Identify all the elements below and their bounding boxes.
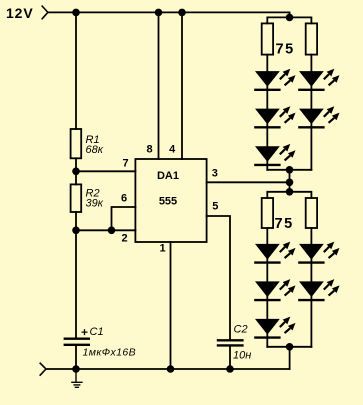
svg-text:C2: C2 — [234, 324, 248, 336]
wire C1 to bottom rail — [75, 346, 77, 369]
resistor 75 upper left — [262, 23, 273, 54]
wire C2 to bottom rail — [229, 347, 231, 370]
input terminal chevron +12V — [42, 6, 48, 19]
wire upper group bottom segment — [267, 169, 311, 171]
wire R2 down to C1 — [75, 212, 77, 337]
wire pin 5 to C2 — [207, 216, 230, 339]
wire lower group bottom segment — [267, 346, 311, 348]
LED upper group right 2 — [298, 106, 339, 127]
svg-text:5: 5 — [212, 201, 218, 213]
svg-text:1: 1 — [160, 243, 166, 255]
junction dot C2 bottom rail — [226, 365, 234, 373]
junction dot R1 R2 pin7 — [72, 168, 80, 176]
resistor 75 lower right — [306, 198, 317, 228]
svg-text:C1: C1 — [90, 326, 104, 338]
wire left branch from rail to R1 — [75, 12, 77, 129]
input terminal chevron common — [40, 363, 46, 375]
LED lower group left 1 — [254, 242, 295, 263]
LED upper group left 1 — [254, 69, 295, 90]
capacitor C2 plates — [218, 340, 242, 345]
resistor R1 — [71, 129, 82, 158]
wire pin 4 — [181, 12, 183, 159]
wire pin 2 — [76, 229, 135, 231]
svg-text:10н: 10н — [233, 350, 251, 362]
svg-text:6: 6 — [121, 193, 127, 205]
LED upper group left 2 — [254, 106, 295, 127]
svg-text:4: 4 — [169, 144, 176, 156]
junction dot R2 C1 pin2 — [72, 227, 80, 235]
resistor 75 lower left — [262, 198, 273, 228]
junction dot upper LED group bottom — [286, 166, 294, 174]
ground — [72, 369, 82, 387]
junction dot pin6 pin2 — [108, 227, 116, 235]
wire lower left LED column — [266, 228, 268, 347]
wire upper left LED column — [266, 55, 268, 170]
svg-text:39к: 39к — [86, 197, 104, 209]
wire upper resistor group top segment — [267, 17, 311, 23]
wire pin 3 output — [207, 181, 290, 183]
junction dot upper resistor group — [286, 14, 294, 22]
svg-text:2: 2 — [121, 233, 127, 245]
junction dot C1 bottom rail — [72, 365, 80, 373]
capacitor C1 plates — [65, 339, 89, 345]
LED upper group right 1 — [298, 69, 339, 90]
LED upper group left 3 — [254, 144, 295, 165]
IC DA1 555 timer body — [135, 159, 206, 242]
svg-text:8: 8 — [146, 144, 152, 156]
svg-text:12V: 12V — [6, 5, 34, 21]
junction dot lower resistor group — [286, 188, 294, 196]
wire mid junction vertical — [289, 170, 291, 192]
wire pin 1 to bottom rail — [170, 242, 172, 369]
svg-text:1мкФх16В: 1мкФх16В — [83, 347, 136, 359]
wire lower right LED column — [310, 228, 312, 347]
resistor R2 — [71, 184, 82, 212]
wire upper right LED column — [310, 55, 312, 170]
junction dot top rail left branch — [72, 9, 80, 17]
wire pin 6 — [112, 207, 136, 230]
LED lower group left 2 — [254, 279, 295, 300]
wire bottom rail — [46, 368, 290, 370]
wire lower resistor group top segment — [267, 192, 311, 198]
svg-text:68к: 68к — [86, 144, 104, 156]
junction dot pin 3 — [286, 179, 294, 187]
wire pin 7 — [76, 170, 135, 172]
svg-text:7: 7 — [123, 158, 129, 170]
wire lower group to bottom rail — [289, 347, 291, 369]
LED lower group right 1 — [298, 242, 339, 263]
resistor 75 upper right — [306, 23, 317, 54]
LED lower group left 3 — [254, 317, 295, 338]
svg-text:DA1: DA1 — [157, 170, 179, 182]
svg-text:75: 75 — [275, 216, 294, 232]
junction dot pin 4 — [178, 9, 186, 17]
svg-text:75: 75 — [276, 41, 295, 57]
LED lower group right 2 — [298, 279, 339, 300]
junction dot pin1 bottom rail — [167, 365, 175, 373]
C1 polarity plus — [82, 329, 88, 335]
svg-text:555: 555 — [159, 196, 177, 208]
wire top rail — [48, 12, 290, 17]
wire R1 to R2 — [75, 158, 77, 184]
wire pin 8 — [158, 12, 160, 159]
svg-text:3: 3 — [212, 168, 218, 180]
junction dot pin 8 — [155, 9, 163, 17]
junction dot lower LED group bottom — [286, 343, 294, 351]
